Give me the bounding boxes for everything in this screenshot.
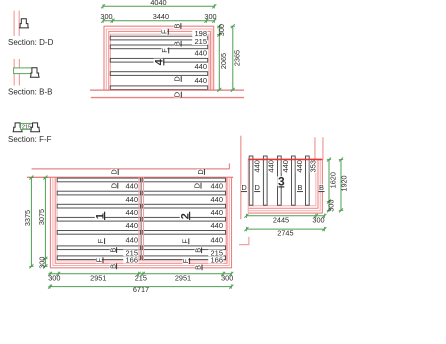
panel 3 section letter B outer bbox=[319, 184, 325, 190]
panel 4 bottom rim bbox=[110, 89, 207, 91]
svg-text:D: D bbox=[255, 183, 260, 192]
panel 2 section letter F lower bbox=[182, 238, 188, 244]
panel 1 section letter B bottom bbox=[110, 264, 116, 270]
panel 1 joist 5 bbox=[57, 231, 140, 235]
svg-text:300: 300 bbox=[37, 257, 46, 269]
svg-text:B: B bbox=[193, 248, 202, 253]
panel 2 joist 7 bbox=[142, 256, 225, 260]
panel 1 joist 2 bbox=[57, 191, 140, 195]
panel 3 section letter D inner bbox=[254, 184, 260, 190]
dimension 4040 line bbox=[103, 5, 215, 7]
panel 4 joist 2 bbox=[110, 45, 207, 49]
panel 2 section letter F bottom bbox=[183, 258, 189, 264]
panel 1 section letter F lower bbox=[98, 238, 104, 244]
panel 2 band section letter D bbox=[197, 169, 203, 175]
panel 3 spacing label 440 bbox=[282, 160, 289, 173]
panel 4 joist 4 bbox=[110, 72, 207, 76]
wall line left of panel 3 bbox=[240, 136, 242, 220]
panel 2 spacing label 440 bbox=[208, 196, 223, 203]
svg-text:215: 215 bbox=[194, 37, 207, 46]
svg-text:440: 440 bbox=[125, 195, 138, 204]
wall lines above panel 3 bbox=[314, 137, 316, 165]
svg-text:440: 440 bbox=[253, 160, 262, 173]
svg-text:215: 215 bbox=[22, 125, 31, 131]
panel 1 section letter F bottom bbox=[96, 257, 102, 263]
svg-text:B: B bbox=[319, 183, 324, 192]
svg-text:353: 353 bbox=[309, 160, 318, 173]
panel 4 outer wall outline bbox=[104, 26, 214, 90]
panel 2 joist 3 bbox=[142, 204, 225, 208]
svg-text:440: 440 bbox=[210, 182, 223, 191]
panel 3 number bbox=[277, 176, 285, 186]
dimension 6717 line bbox=[48, 286, 231, 288]
panel 4 spacing label 440 bbox=[192, 50, 207, 57]
panel 3 joist 2 bbox=[263, 156, 267, 205]
dimension 300-3440-300 line bbox=[103, 20, 215, 22]
svg-text:2951: 2951 bbox=[90, 273, 106, 282]
section F-F icon right beam bbox=[31, 123, 40, 132]
panel 4 joist 1 bbox=[110, 36, 207, 40]
svg-text:3375: 3375 bbox=[23, 210, 32, 226]
panel 4 spacing label 215 bbox=[192, 38, 207, 45]
svg-text:B: B bbox=[173, 41, 182, 46]
panel 4 spacing label 440 bbox=[192, 63, 207, 70]
svg-text:B: B bbox=[172, 23, 181, 28]
panel 3 section letter D outer bbox=[241, 184, 247, 190]
svg-text:B: B bbox=[194, 265, 203, 270]
svg-text:215: 215 bbox=[135, 273, 147, 282]
svg-text:D: D bbox=[173, 76, 182, 81]
panel 3 wall line 3 bbox=[248, 160, 318, 208]
panel 3 joist 5 bbox=[306, 156, 310, 205]
svg-text:440: 440 bbox=[125, 221, 138, 230]
bottom panel wall line 2 bbox=[53, 177, 229, 265]
svg-text:Section: B-B: Section: B-B bbox=[8, 88, 52, 97]
dimension 2445/300 line bbox=[246, 215, 325, 217]
panel 4 spacing label 198 bbox=[192, 30, 207, 37]
panel 3 spacing label 440 bbox=[296, 160, 303, 173]
wall band below panel 4 upper line bbox=[90, 89, 244, 91]
panel 2 joist 5 bbox=[142, 231, 225, 235]
dimension 2365 line bbox=[232, 26, 234, 90]
svg-text:1920: 1920 bbox=[340, 175, 349, 191]
dimension 1620/300 line bbox=[328, 159, 330, 210]
svg-text:D: D bbox=[110, 169, 119, 174]
panel 4 section letter B mid bbox=[174, 41, 180, 47]
wall corner mark below panel 3 bbox=[248, 237, 250, 245]
panel 1 spacing label 440 bbox=[123, 209, 138, 216]
panel 4 section letter F top bbox=[161, 29, 167, 35]
svg-text:300: 300 bbox=[48, 273, 60, 282]
panel 3 left wall stub bbox=[247, 159, 249, 213]
panel 2 section letter D bbox=[194, 183, 200, 189]
svg-text:D: D bbox=[173, 92, 182, 97]
panel 1 joist 1 bbox=[57, 178, 140, 182]
panel 3 wall line 2 bbox=[248, 160, 320, 211]
dimension 3375 line bbox=[30, 177, 32, 266]
panel 4 joist 5 bbox=[110, 86, 207, 90]
svg-text:2951: 2951 bbox=[175, 273, 191, 282]
svg-text:6717: 6717 bbox=[133, 285, 149, 294]
panel 4 section letter B top bbox=[174, 23, 180, 29]
svg-text:440: 440 bbox=[295, 160, 304, 173]
panel 2 spacing label 440 bbox=[208, 222, 223, 229]
panel 3 spacing label 440 bbox=[268, 160, 275, 173]
panel 2 spacing label 215 bbox=[208, 250, 223, 257]
panel 4 wall line 2 bbox=[106, 29, 212, 90]
bottom panel top band lower line bbox=[27, 176, 233, 178]
svg-text:300: 300 bbox=[217, 24, 226, 36]
dimension 300/2065 line bbox=[218, 26, 220, 90]
svg-text:440: 440 bbox=[194, 49, 207, 58]
panel 1 spacing label 440 bbox=[123, 196, 138, 203]
svg-text:440: 440 bbox=[267, 160, 276, 173]
panel 2 spacing label 440 bbox=[208, 209, 223, 216]
wall band below panel 4 lower line bbox=[91, 97, 244, 99]
svg-text:300: 300 bbox=[312, 215, 324, 224]
section B-B icon floor slab bbox=[14, 68, 33, 74]
svg-text:2065: 2065 bbox=[219, 53, 228, 69]
svg-text:166: 166 bbox=[125, 256, 138, 265]
dimension 1920 line bbox=[340, 159, 342, 210]
panel 4 joist 3 bbox=[110, 58, 207, 62]
svg-text:D: D bbox=[196, 169, 205, 174]
svg-text:D: D bbox=[192, 183, 201, 188]
panel 1 joist 7 bbox=[57, 256, 140, 260]
panel 3 outer wall outline bbox=[248, 160, 322, 213]
panel 1 band section letter D bbox=[111, 169, 117, 175]
svg-text:F: F bbox=[160, 48, 169, 53]
svg-text:F: F bbox=[94, 257, 103, 262]
svg-text:3440: 3440 bbox=[153, 12, 169, 21]
svg-text:B: B bbox=[108, 264, 117, 269]
svg-text:1620: 1620 bbox=[328, 172, 337, 188]
svg-text:B: B bbox=[298, 183, 303, 192]
panel 3 top edge line bbox=[248, 158, 322, 160]
panel 1 joist 4 bbox=[57, 217, 140, 221]
panel 2 joist 2 bbox=[142, 191, 225, 195]
bottom panel outer wall outline bbox=[50, 177, 231, 267]
panel 2 spacing label 166 bbox=[208, 257, 223, 264]
panel 3 spacing label 353 bbox=[310, 160, 317, 173]
svg-text:300: 300 bbox=[326, 200, 335, 212]
panel 3 joist 4 bbox=[292, 156, 296, 205]
svg-text:F: F bbox=[160, 29, 169, 34]
svg-text:300: 300 bbox=[221, 273, 233, 282]
svg-text:2745: 2745 bbox=[277, 229, 293, 238]
panel 1 section letter B lower bbox=[110, 247, 116, 253]
panel 3 joist 1 bbox=[249, 156, 253, 205]
svg-text:166: 166 bbox=[210, 256, 223, 265]
svg-text:B: B bbox=[108, 248, 117, 253]
panel 1 number bbox=[95, 212, 104, 221]
section D-D icon beam cross-section bbox=[20, 19, 29, 28]
svg-text:F: F bbox=[96, 238, 105, 243]
panel 3 section letter B inner bbox=[297, 184, 303, 190]
panel 1 spacing label 440 bbox=[123, 222, 138, 229]
panel 2 section letter B lower bbox=[195, 247, 201, 253]
panel 2 section letter B bottom bbox=[195, 265, 201, 271]
panel 2 number bbox=[180, 212, 189, 221]
panel 1 joist 3 bbox=[57, 204, 140, 208]
svg-text:300: 300 bbox=[204, 12, 216, 21]
panel 1 joist 6 bbox=[57, 246, 140, 250]
panel 1 spacing label 440 bbox=[123, 237, 138, 244]
svg-text:F: F bbox=[180, 239, 189, 244]
svg-text:F: F bbox=[181, 258, 190, 263]
panel 4 spacing label 440 bbox=[192, 77, 207, 84]
panel 1 spacing label 215 bbox=[123, 250, 138, 257]
panel 4 band section letter D bbox=[174, 92, 180, 98]
section F-F icon left beam bbox=[13, 123, 22, 132]
svg-text:440: 440 bbox=[125, 208, 138, 217]
section B-B icon wall lines bbox=[13, 59, 15, 86]
svg-text:2365: 2365 bbox=[232, 50, 241, 66]
svg-text:Section: F-F: Section: F-F bbox=[8, 135, 52, 144]
panel 4 wall line 3 bbox=[109, 31, 211, 89]
svg-text:440: 440 bbox=[210, 236, 223, 245]
panel 1 section letter D bbox=[111, 183, 117, 189]
svg-text:4040: 4040 bbox=[150, 0, 166, 7]
panel 3 spacing label 440 bbox=[254, 160, 261, 173]
panel 4 number 4 bbox=[154, 59, 163, 67]
svg-text:D: D bbox=[109, 183, 118, 188]
centre divider wall lines bbox=[138, 177, 140, 261]
dimension 300-2951-215-2951-300 line bbox=[48, 273, 231, 275]
svg-text:440: 440 bbox=[210, 221, 223, 230]
panel 1 spacing label 440 bbox=[123, 183, 138, 190]
svg-text:Section: D-D: Section: D-D bbox=[8, 38, 54, 47]
panel 4 section letter D low bbox=[174, 76, 180, 82]
svg-text:440: 440 bbox=[125, 236, 138, 245]
bottom panel inner wall line bbox=[57, 177, 226, 261]
svg-text:440: 440 bbox=[125, 182, 138, 191]
section D-D icon wall lines bbox=[13, 11, 15, 36]
svg-text:2445: 2445 bbox=[273, 215, 289, 224]
section F-F icon joist box 215 bbox=[21, 123, 33, 129]
svg-text:3: 3 bbox=[278, 174, 285, 188]
bottom panel top band upper line bbox=[32, 168, 230, 170]
panel 3 inner wall line bbox=[248, 160, 316, 206]
panel 2 joist 4 bbox=[142, 217, 225, 221]
svg-text:440: 440 bbox=[281, 160, 290, 173]
svg-text:D: D bbox=[241, 183, 246, 192]
panel 4 inner wall line bbox=[111, 34, 209, 90]
bottom panel wall line 3 bbox=[55, 177, 227, 263]
panel 2 spacing label 440 bbox=[208, 237, 223, 244]
panel 3 joist 3 bbox=[278, 156, 282, 205]
svg-text:3075: 3075 bbox=[37, 209, 46, 225]
centre divider rim bbox=[140, 178, 142, 260]
panel 1 spacing label 166 bbox=[123, 257, 138, 264]
svg-text:440: 440 bbox=[194, 76, 207, 85]
section B-B icon beam cross-section bbox=[30, 68, 39, 78]
dimension 2745 line bbox=[246, 228, 325, 230]
panel 2 spacing label 440 bbox=[208, 183, 223, 190]
panel 2 joist 1 bbox=[142, 178, 225, 182]
dimension 3075/300 line bbox=[44, 177, 46, 266]
svg-text:440: 440 bbox=[194, 62, 207, 71]
svg-text:440: 440 bbox=[210, 195, 223, 204]
svg-text:300: 300 bbox=[100, 12, 112, 21]
svg-text:440: 440 bbox=[210, 208, 223, 217]
panel 2 joist 6 bbox=[142, 246, 225, 250]
panel 4 section letter F mid bbox=[162, 48, 168, 54]
